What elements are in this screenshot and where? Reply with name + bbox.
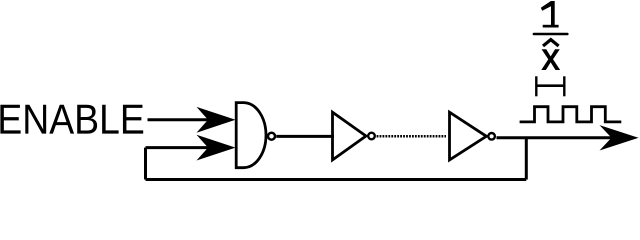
wire NAND output to inverter U2: [276, 135, 334, 138]
label denominator x hat: [543, 40, 559, 46]
dotted wire between inverters (omitted stages): [377, 135, 446, 138]
inverter U2 triangle: [333, 112, 367, 160]
NAND gate U1 output bubble: [268, 133, 275, 140]
inverter U3 triangle: [450, 112, 487, 160]
arrowhead feedback into NAND bottom input: [197, 135, 236, 161]
wire feedback vertical left: [144, 148, 147, 180]
wire feedback to NAND bottom input: [146, 146, 215, 149]
wire output to the right: [497, 136, 617, 139]
NAND gate U1 body: [236, 103, 266, 168]
arrowhead output: [600, 125, 639, 150]
wire feedback bottom: [146, 178, 527, 181]
wire ENABLE input: [148, 118, 215, 121]
arrowhead ENABLE into NAND top input: [197, 107, 236, 133]
inverter U2 output bubble: [368, 133, 375, 140]
inverter U3 output bubble: [488, 133, 495, 140]
label fraction numerator 1: [541, 1, 559, 28]
period measurement bracket: [536, 76, 564, 96]
square wave signal symbol: [520, 107, 622, 122]
wire feedback vertical right: [525, 138, 528, 180]
label ENABLE: [0, 105, 143, 134]
fraction bar: [533, 33, 569, 36]
